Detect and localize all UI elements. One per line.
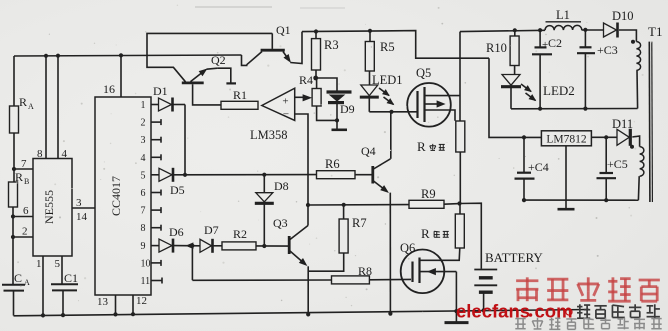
wire D1 cathode riser to D5 row xyxy=(184,105,186,175)
svg-text:Q6: Q6 xyxy=(400,241,415,255)
wire pin4 riser xyxy=(56,54,60,58)
svg-text:7: 7 xyxy=(21,158,27,170)
capacitor C2 xyxy=(538,28,542,32)
svg-text:5: 5 xyxy=(141,170,146,181)
wire pin4 stub xyxy=(151,156,161,158)
capacitor C3 xyxy=(583,28,587,32)
svg-text:11: 11 xyxy=(141,276,151,287)
svg-text:16: 16 xyxy=(103,82,115,96)
svg-text:+: + xyxy=(282,96,288,108)
svg-text:BATTERY: BATTERY xyxy=(485,250,543,265)
svg-text:2: 2 xyxy=(141,118,146,129)
IC U1 NE555 box xyxy=(33,159,72,257)
svg-text:14: 14 xyxy=(76,211,88,223)
diode D9 transient suppressor xyxy=(327,90,352,93)
svg-text:T1: T1 xyxy=(648,24,662,39)
svg-text:R: R xyxy=(417,139,426,154)
svg-text:D10: D10 xyxy=(612,9,634,23)
wire comparator sense row xyxy=(308,204,409,206)
wire regulator ground row xyxy=(524,199,638,201)
wire LED1 to Q5 gate xyxy=(369,111,417,113)
wire D6 junction drop to R8 row xyxy=(191,246,193,281)
wire R8 row xyxy=(192,279,331,281)
svg-text:B: B xyxy=(24,177,29,186)
wire rail after L1 to D10 xyxy=(582,29,604,31)
svg-text:LM7812: LM7812 xyxy=(546,134,587,146)
wire op-amp plus input to R4 wiper xyxy=(295,96,304,98)
svg-text:6: 6 xyxy=(141,188,146,199)
svg-text:9: 9 xyxy=(141,241,146,252)
svg-text:C1: C1 xyxy=(64,271,78,285)
svg-text:LM358: LM358 xyxy=(250,128,288,142)
svg-text:NE555: NE555 xyxy=(42,190,56,224)
wire pin10 stub xyxy=(151,262,161,264)
wire D6 to D7 with junction xyxy=(174,245,200,247)
LED LED1 xyxy=(369,71,371,85)
wire Q4 collector riser to gate node xyxy=(390,112,392,159)
ground symbol below rail xyxy=(455,311,457,322)
svg-text:R5: R5 xyxy=(380,40,395,54)
svg-text:4: 4 xyxy=(62,148,68,160)
svg-text:R9: R9 xyxy=(421,187,436,201)
svg-text:D8: D8 xyxy=(274,179,289,193)
diode D8 xyxy=(263,175,265,193)
resistor Rcharge xyxy=(456,121,465,152)
diode D10 xyxy=(604,23,617,37)
svg-text:R4: R4 xyxy=(299,73,313,87)
wire Q4 emitter column crossing to ground rail xyxy=(389,193,391,314)
wire Q6 source to ground rail xyxy=(455,272,457,312)
svg-text:D7: D7 xyxy=(204,223,219,237)
svg-text:A: A xyxy=(24,278,30,287)
wire upper rail right segment xyxy=(460,30,545,31)
wire junction to D9 top xyxy=(316,78,337,91)
svg-text:C: C xyxy=(14,271,22,285)
resistor R8 xyxy=(332,276,370,284)
svg-text:12: 12 xyxy=(136,295,147,307)
wire pin5 to C1 xyxy=(61,256,63,284)
resistor R1 xyxy=(221,101,258,109)
svg-text:LED2: LED2 xyxy=(543,83,575,98)
svg-text:R1: R1 xyxy=(233,88,247,102)
wire pin8 riser xyxy=(44,54,48,58)
wire Q3 collector riser xyxy=(307,205,309,226)
resistor R4 trimmer xyxy=(312,89,321,107)
resistor Rdischarge xyxy=(459,204,461,215)
svg-text:R: R xyxy=(19,95,27,109)
op-amp U3 LM358 xyxy=(262,88,295,120)
wire R9 to charge node xyxy=(444,203,460,206)
transformer T1 primary xyxy=(631,40,635,44)
svg-text:R7: R7 xyxy=(352,216,367,230)
ground symbol regulator xyxy=(565,200,567,208)
resistor R10 xyxy=(513,28,517,32)
faint scan marks top xyxy=(195,6,272,8)
transistor Q6 MOSFET xyxy=(401,249,445,293)
diode D5 xyxy=(151,174,159,176)
battery BATTERY xyxy=(474,269,497,271)
IC U4 LM7812 xyxy=(541,131,591,146)
svg-text:5: 5 xyxy=(55,258,61,270)
svg-text:R3: R3 xyxy=(324,38,339,52)
wire Q2 emitter stub xyxy=(217,68,231,82)
wire LM7812 ground pin xyxy=(565,146,567,200)
node pin6 junction xyxy=(11,214,15,218)
svg-text:10: 10 xyxy=(141,258,151,269)
svg-text:C2: C2 xyxy=(548,36,562,50)
node R3-R4 junction xyxy=(313,76,318,81)
capacitor C1 xyxy=(51,283,78,285)
svg-text:Q2: Q2 xyxy=(211,53,226,67)
svg-text:13: 13 xyxy=(97,296,109,308)
svg-text:Q4: Q4 xyxy=(361,144,376,158)
resistor R3 xyxy=(314,29,318,33)
svg-text:Q1: Q1 xyxy=(276,23,291,37)
wire upper output rail xyxy=(302,31,489,59)
wire pin12 to rail xyxy=(132,295,134,314)
transistor Q5 MOSFET xyxy=(407,83,451,127)
wire charge column xyxy=(459,32,461,121)
svg-text:CC4017: CC4017 xyxy=(109,176,123,216)
svg-text:R: R xyxy=(421,226,430,241)
svg-text:8: 8 xyxy=(37,148,43,160)
diode D1 xyxy=(151,104,159,106)
svg-text:1: 1 xyxy=(36,258,42,270)
wire pin7 stub xyxy=(151,209,161,211)
resistor R2 xyxy=(214,245,223,247)
svg-text:1: 1 xyxy=(141,100,146,111)
transformer T1 core xyxy=(648,42,651,202)
svg-text:−: − xyxy=(283,109,289,121)
wire D5 row to R6 xyxy=(174,174,317,176)
wire Q3 emitter column to ground rail xyxy=(307,266,309,314)
wire R4 bottom to D9 ground node xyxy=(317,106,337,120)
capacitor CA xyxy=(2,284,25,286)
svg-text:A: A xyxy=(28,102,34,111)
wire LM7812 output xyxy=(591,136,617,138)
wire LED2 bottom row xyxy=(511,108,638,110)
IC U2 CC4017 box xyxy=(95,97,151,295)
wire pin6 stub xyxy=(151,192,161,194)
svg-text:R: R xyxy=(15,170,23,184)
svg-text:3: 3 xyxy=(141,135,146,146)
svg-text:2: 2 xyxy=(22,226,28,238)
capacitor C4 xyxy=(523,137,525,172)
svg-text:LED1: LED1 xyxy=(372,73,403,87)
svg-text:+C4: +C4 xyxy=(528,160,549,174)
transistor Q4 xyxy=(355,174,372,176)
svg-text:R10: R10 xyxy=(486,41,507,55)
transformer T1 secondary xyxy=(632,136,639,147)
wire pin16 riser xyxy=(119,53,123,57)
svg-text:D9: D9 xyxy=(340,102,355,116)
wire top rail left xyxy=(14,55,242,56)
wire pin2 stub xyxy=(151,121,161,123)
svg-text:3: 3 xyxy=(76,197,82,209)
svg-text:+C3: +C3 xyxy=(597,43,618,57)
wire pin3 to CC4017 pin14 xyxy=(72,207,95,209)
svg-text:D6: D6 xyxy=(169,225,184,239)
resistor RB xyxy=(13,169,15,182)
diode D6 xyxy=(151,245,159,247)
wire R7 bottom link xyxy=(308,253,344,271)
wire pin3 stub xyxy=(151,139,161,141)
node pin2 junction xyxy=(11,235,15,239)
wire battery riser xyxy=(460,203,482,269)
watermark yiditu training red characters xyxy=(516,279,538,282)
wire Q2 base feed xyxy=(147,56,186,82)
transistor Q2 xyxy=(182,82,204,85)
svg-text:4: 4 xyxy=(141,153,146,164)
svg-text:R6: R6 xyxy=(325,157,340,171)
wire pin8 stub xyxy=(151,227,161,229)
diode D7 xyxy=(200,239,212,252)
svg-text:R8: R8 xyxy=(358,264,372,278)
svg-text:R2: R2 xyxy=(233,227,247,241)
transistor Q3 xyxy=(288,236,291,254)
capacitor C5 xyxy=(605,137,607,172)
svg-text:+C5: +C5 xyxy=(607,157,628,171)
wire pin11 stub xyxy=(151,280,162,282)
svg-text:7: 7 xyxy=(141,206,146,217)
resistor R6 xyxy=(317,171,356,179)
wire D10 to T1 xyxy=(619,30,636,42)
wire Q1 emitter to upper rail xyxy=(290,32,302,64)
resistor R9 xyxy=(409,200,444,208)
LED LED2 xyxy=(502,75,520,86)
svg-text:Q5: Q5 xyxy=(416,66,431,80)
wire op-amp minus input riser xyxy=(295,114,308,205)
wire rail step to Q1 collector xyxy=(242,55,248,65)
diode D11 xyxy=(617,129,629,145)
svg-text:D11: D11 xyxy=(612,117,633,131)
resistor R7 xyxy=(339,219,348,253)
wire LM7812 input riser xyxy=(489,58,541,137)
wire R8 to Q6 gate xyxy=(369,278,411,280)
svg-text:8: 8 xyxy=(141,223,146,234)
watermark shepin wuxian sheji zhuanjia characters xyxy=(515,318,525,320)
transistor Q1 xyxy=(271,33,273,49)
wire pin1 to ground rail xyxy=(42,256,44,316)
wire Q1 base feed upper line xyxy=(147,33,272,55)
svg-text:D5: D5 xyxy=(170,183,185,197)
resistor RA xyxy=(13,56,15,106)
wire Q2 collector to R1 xyxy=(193,84,221,105)
wire Rdischarge to Q6 drain xyxy=(445,248,460,260)
wire bottom ground rail xyxy=(14,310,590,316)
paper speckles xyxy=(217,52,219,54)
svg-text:D1: D1 xyxy=(153,84,168,98)
ground below D9 xyxy=(336,120,338,129)
svg-text:Q3: Q3 xyxy=(273,216,288,230)
resistor R5 xyxy=(368,29,372,33)
inductor L1 xyxy=(546,21,582,23)
svg-text:6: 6 xyxy=(23,205,29,217)
svg-text:L1: L1 xyxy=(556,8,570,22)
node pin7 junction xyxy=(12,167,16,171)
watermark dianzifashaoyou characters xyxy=(577,306,582,308)
wire pin13 to rail xyxy=(115,295,117,315)
